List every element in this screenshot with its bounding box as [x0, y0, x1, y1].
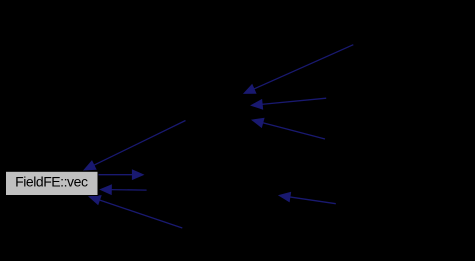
svg-text:FieldFE::vec: FieldFE::vec: [15, 174, 88, 190]
